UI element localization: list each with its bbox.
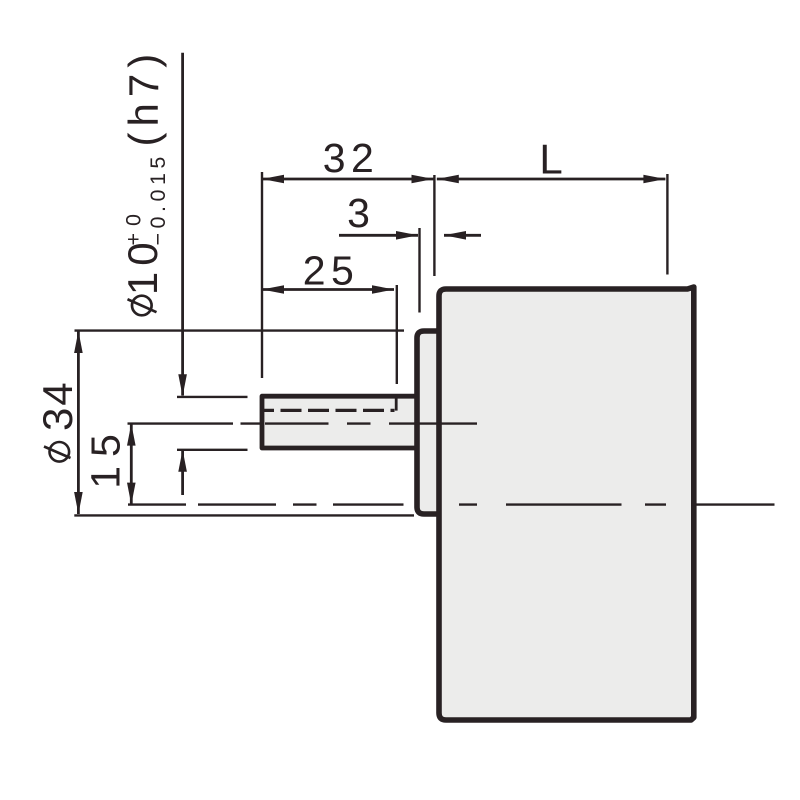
extension line body front [433, 175, 435, 276]
extension line shaft top [177, 396, 248, 398]
dimension dia10 fit class text [120, 48, 167, 147]
dimension 32 text [323, 135, 380, 181]
keyway hidden line [263, 399, 396, 411]
dimension 15 line [127, 424, 136, 505]
extension line flange top [75, 329, 405, 331]
mounting flange [417, 331, 446, 514]
extension line flange front [418, 228, 420, 313]
body centerline [128, 503, 775, 505]
svg-text:+0: +0 [122, 207, 146, 246]
svg-text:25: 25 [303, 248, 360, 294]
svg-text:32: 32 [323, 135, 380, 181]
motor body [439, 287, 694, 720]
extension line body rear [666, 174, 668, 275]
dimension dia10 diameter symbol [128, 296, 157, 316]
dimension dia10 lower tolerance text [146, 152, 170, 245]
extension line shaft end [261, 172, 263, 378]
svg-text:34: 34 [34, 380, 81, 431]
svg-text:15: 15 [83, 425, 129, 489]
svg-text:3: 3 [347, 190, 370, 236]
dimension dia34 diameter symbol [44, 442, 71, 462]
extension line keyway end [396, 285, 398, 384]
dimension dia10 upper tolerance text [122, 207, 146, 246]
dimension dia34 line [74, 331, 83, 514]
output shaft [262, 396, 426, 448]
dimension 25 text [303, 248, 360, 294]
dimension L text [539, 136, 562, 183]
extension line shaft bottom [177, 449, 248, 451]
shaft centerline [128, 422, 478, 424]
dimension 3 text [347, 190, 370, 236]
svg-text:(h7): (h7) [120, 48, 167, 147]
dimension dia10 leader lines [178, 53, 187, 495]
dimension L line [437, 175, 666, 184]
dimension 15 text [83, 425, 129, 489]
svg-text:−0.015: −0.015 [146, 152, 170, 245]
extension line flange bottom [74, 514, 414, 516]
svg-text:L: L [539, 136, 562, 183]
dimension dia34 text [34, 380, 81, 431]
dimension 32 line [262, 175, 434, 184]
dimension dia10 text [119, 236, 166, 295]
dimension 3 line [339, 231, 481, 240]
dimension 25 line [262, 285, 394, 294]
